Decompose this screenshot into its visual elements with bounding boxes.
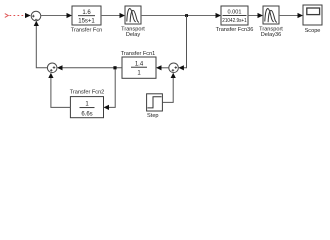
block Transport Delay xyxy=(121,6,145,38)
block Scope xyxy=(303,5,322,34)
svg-text:6.6s: 6.6s xyxy=(81,111,92,117)
svg-text:Transfer Fcn2: Transfer Fcn2 xyxy=(70,90,105,96)
sum junction Sum1 xyxy=(31,11,41,21)
block Transfer Fcn2 (1 / 6.6s) xyxy=(70,90,105,118)
svg-text:Delay36: Delay36 xyxy=(261,32,282,38)
block Step xyxy=(147,94,163,119)
wire Transfer Fcn to Transport Delay xyxy=(101,13,125,18)
svg-text:1.4: 1.4 xyxy=(135,61,144,67)
sum junction Sum2 xyxy=(47,63,57,73)
block Transfer Fcn36 (0.001 / 21042.9s+1) xyxy=(216,6,254,33)
block Transfer Fcn1 (1.4 / 1) xyxy=(121,51,156,78)
junction node on Transfer Fcn1 output wire xyxy=(113,66,116,69)
sum junction Sum3 xyxy=(169,63,179,73)
wire Transport Delay to Transfer Fcn36 xyxy=(141,13,221,18)
svg-text:Transfer Fcn: Transfer Fcn xyxy=(71,28,103,34)
feedback wire Sum2 to Sum1 bottom xyxy=(34,21,48,68)
svg-text:Scope: Scope xyxy=(305,28,321,34)
svg-text:Step: Step xyxy=(147,113,159,119)
wire Sum3 to Transfer Fcn1 xyxy=(156,65,169,70)
svg-text:Transfer Fcn36: Transfer Fcn36 xyxy=(216,27,254,33)
wire Step to Sum3 bottom xyxy=(162,73,175,103)
feedback wire from junction down to Sum3 xyxy=(178,16,186,71)
wire Transport Delay36 to Scope xyxy=(279,13,303,18)
block Transfer Fcn (1.6 / 15s+1) xyxy=(71,6,103,34)
input signal (red dashed unconnected line) xyxy=(5,13,31,18)
wire Transfer Fcn2 to Sum2 bottom xyxy=(48,73,70,108)
junction node on line after Transport Delay xyxy=(185,14,188,17)
svg-text:Transfer Fcn1: Transfer Fcn1 xyxy=(121,51,156,57)
wire Transfer Fcn1 to Sum2 xyxy=(57,65,122,70)
wire Sum1 to Transfer Fcn xyxy=(41,13,72,18)
svg-text:Delay: Delay xyxy=(126,32,141,38)
svg-text:21042.9s+1: 21042.9s+1 xyxy=(222,18,247,24)
svg-text:0.001: 0.001 xyxy=(228,10,242,16)
wire Transfer Fcn36 to Transport Delay36 xyxy=(248,13,263,18)
block Transport Delay36 xyxy=(259,6,283,38)
branch wire from junction down to Transfer Fcn2 xyxy=(104,69,116,110)
svg-text:15s+1: 15s+1 xyxy=(78,19,95,25)
